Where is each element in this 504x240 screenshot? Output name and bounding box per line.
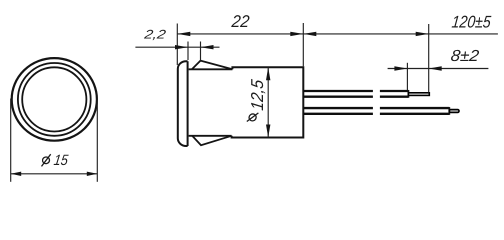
extension line left of ø15 <box>10 99 12 182</box>
arrowhead 2,2 left (outside, pointing right) <box>175 45 188 49</box>
bezel back face <box>187 61 189 146</box>
neck top line <box>189 68 233 70</box>
dimension line 2,2 <box>135 46 219 48</box>
extension line at tab apex (2,2) <box>200 42 202 61</box>
extension line at wire tip <box>428 24 430 93</box>
front view inner lens circle <box>22 67 86 131</box>
svg-text:2,2: 2,2 <box>142 28 166 42</box>
arrowhead ø15 left <box>11 172 22 176</box>
wire 1 stripped conductor <box>408 93 429 96</box>
bezel head (side view) <box>178 61 188 146</box>
extension line at insulation end (8±2) <box>406 63 408 90</box>
wire 2 insulation end cap <box>448 107 450 115</box>
arrowhead ø15 right <box>87 172 98 176</box>
arrowhead 22 right <box>290 32 303 36</box>
front view middle circle <box>18 63 91 136</box>
svg-text:15: 15 <box>53 152 70 169</box>
wire 2 insulation bottom edge <box>303 113 373 115</box>
arrowhead ø12,5 top <box>266 67 270 80</box>
body cylinder <box>232 67 304 137</box>
wire 1 insulation bottom edge <box>303 96 373 98</box>
dimension line ø15 <box>11 173 98 175</box>
arrowhead 8±2 left (outside, pointing right) <box>394 66 407 70</box>
arrowhead 120±5 left <box>303 32 316 36</box>
svg-text:120±5: 120±5 <box>451 13 492 32</box>
extension line at bezel front face <box>176 24 178 66</box>
arrowhead 22 left <box>177 32 190 36</box>
dimension line 8±2 <box>388 68 489 70</box>
label ø15 diameter symbol <box>42 154 51 166</box>
svg-text:8±2: 8±2 <box>450 47 480 65</box>
wire 2 insulation top edge <box>303 107 373 109</box>
bottom snap tab <box>192 136 231 145</box>
top snap tab <box>192 61 233 70</box>
wire 2 stripped conductor <box>449 110 459 113</box>
wire 1 insulation end cap <box>407 90 409 98</box>
arrowhead 120±5 right <box>416 32 429 36</box>
arrowhead 8±2 right (outside, pointing left) <box>429 66 442 70</box>
wire 1 insulation top edge <box>303 90 373 92</box>
arrowhead ø12,5 bottom <box>266 125 270 138</box>
arrowhead 2,2 right (outside, pointing left) <box>201 45 214 49</box>
extension line right of ø15 <box>96 99 98 182</box>
svg-text:22: 22 <box>230 12 251 31</box>
extension line at bezel rear face (2,2) <box>187 42 189 61</box>
label ø12,5 diameter symbol <box>247 113 259 123</box>
extension line at body rear face <box>302 23 304 66</box>
front view outer circle (bezel rim) <box>12 58 97 141</box>
svg-text:12,5: 12,5 <box>247 78 267 112</box>
neck bottom line <box>189 135 232 137</box>
dimension line 22 / 120±5 <box>177 33 498 35</box>
dimension line ø12,5 <box>267 67 269 137</box>
